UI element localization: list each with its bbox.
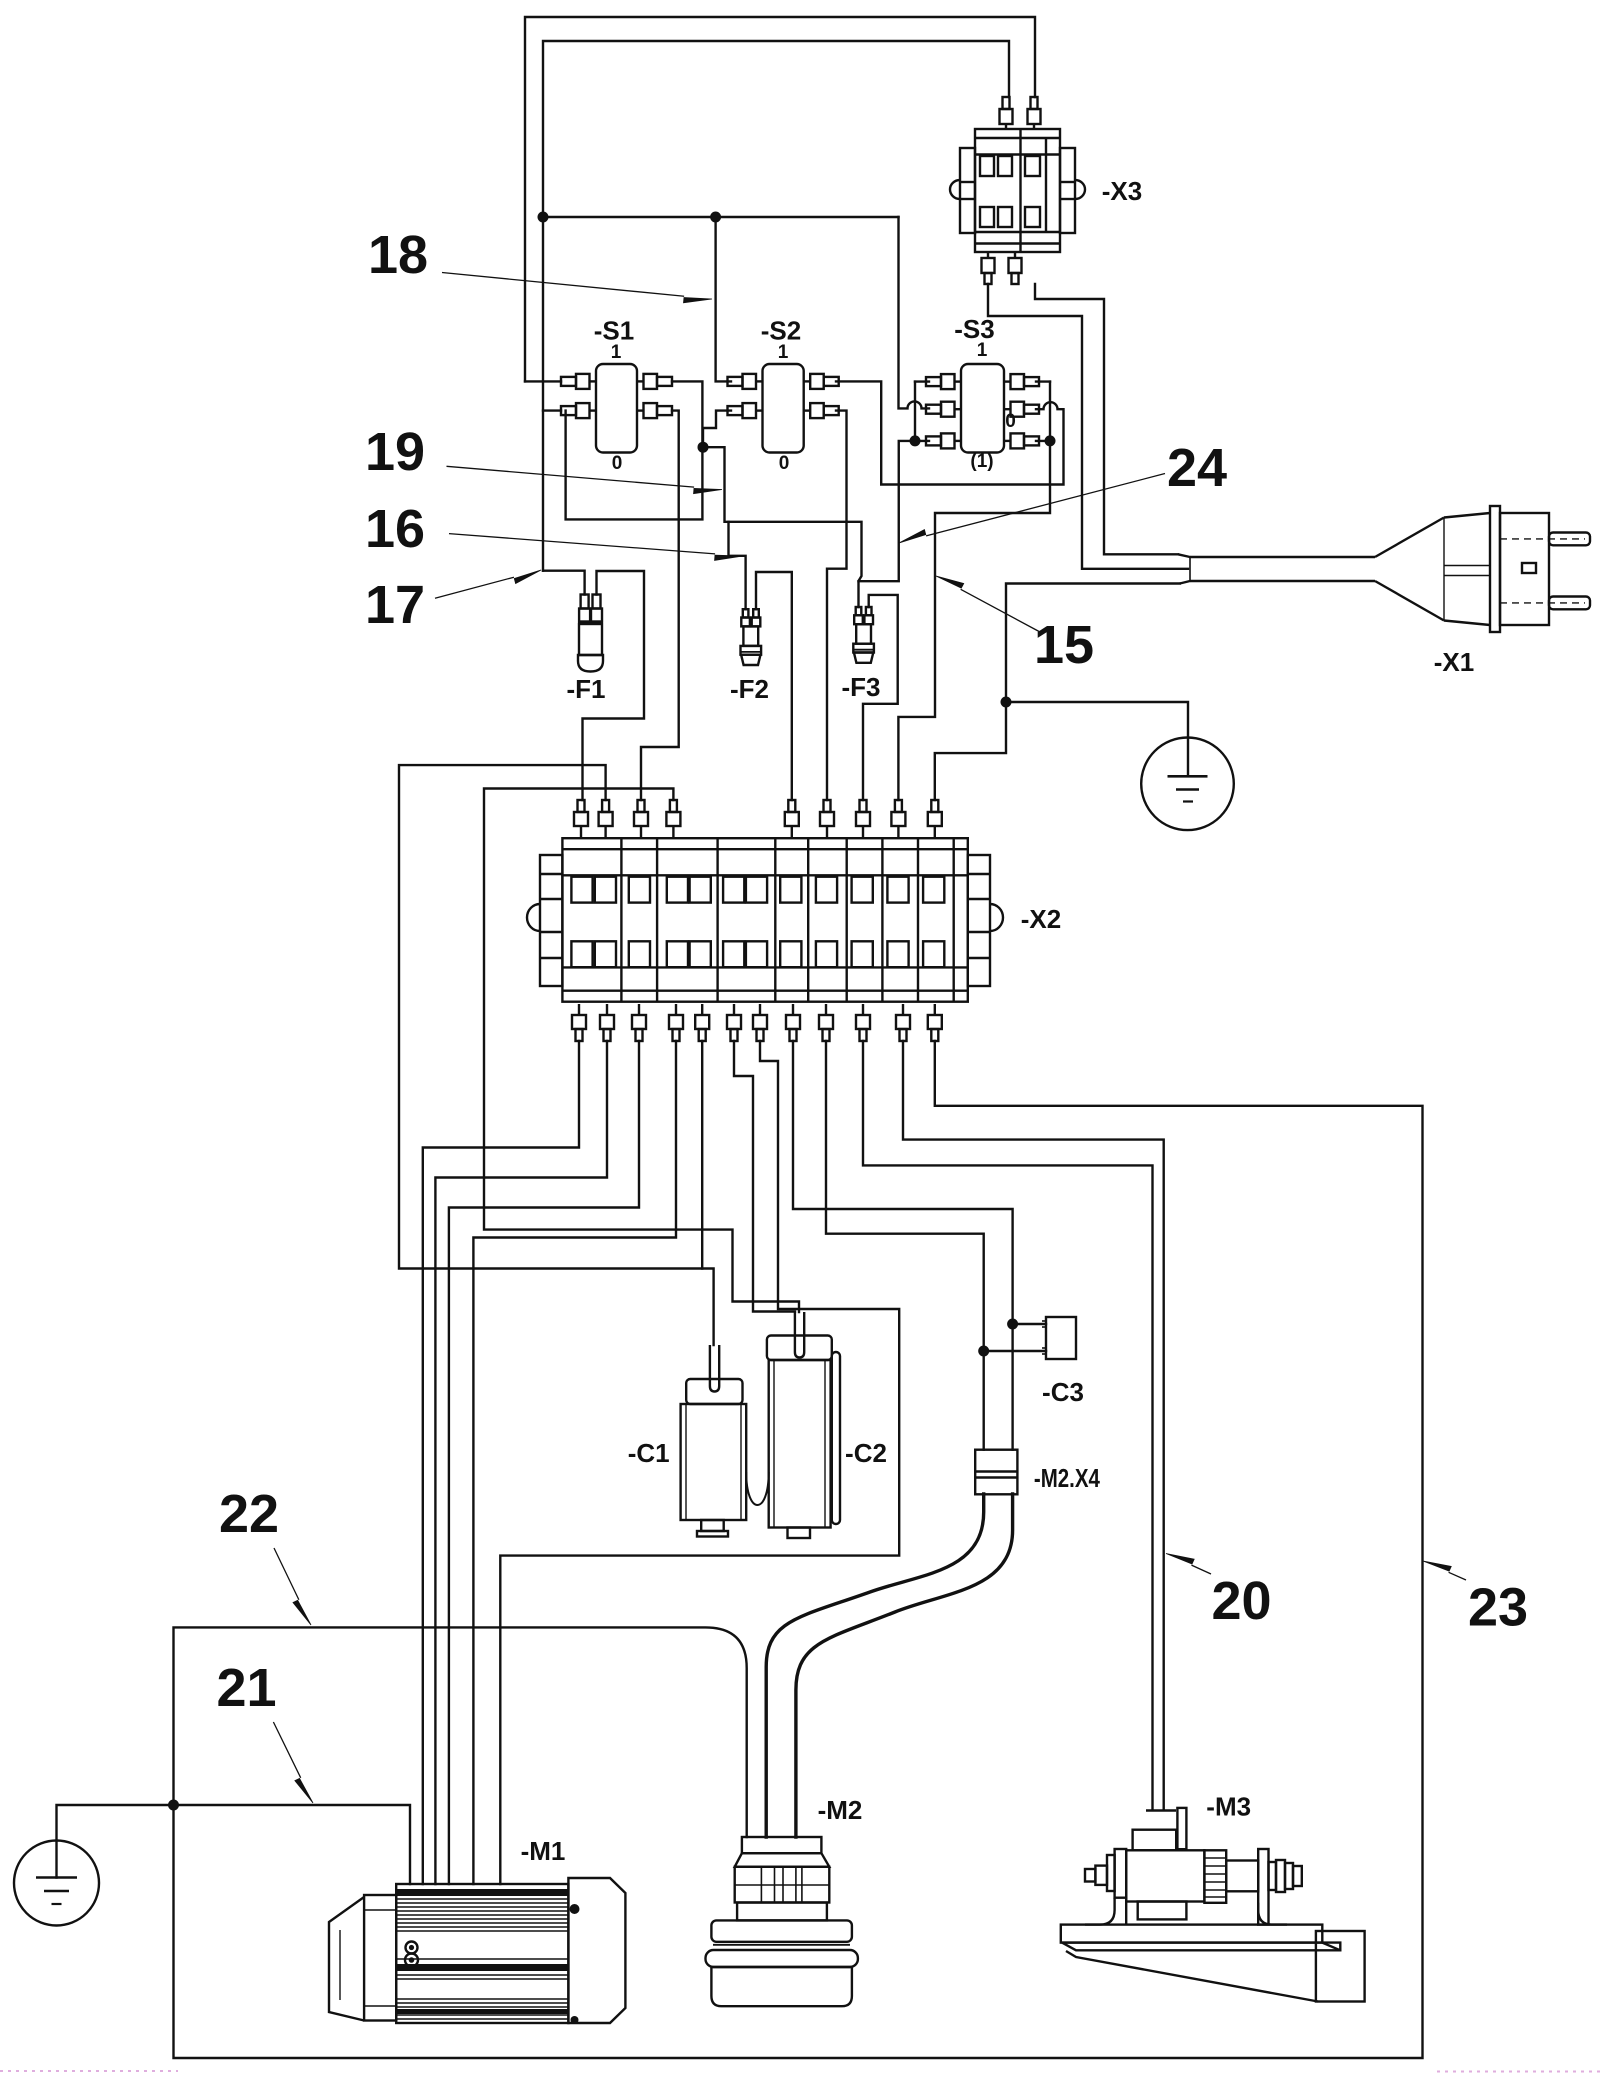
svg-text:1: 1 <box>611 342 622 363</box>
svg-text:-S3: -S3 <box>954 314 994 344</box>
svg-text:-S1: -S1 <box>594 316 634 346</box>
svg-text:-M2: -M2 <box>818 1795 863 1825</box>
svg-text:22: 22 <box>219 1484 279 1544</box>
svg-text:15: 15 <box>1034 615 1094 675</box>
svg-text:23: 23 <box>1468 1578 1528 1638</box>
svg-text:1: 1 <box>977 340 988 361</box>
svg-text:0: 0 <box>779 453 790 474</box>
svg-text:-M1: -M1 <box>521 1836 566 1866</box>
svg-text:24: 24 <box>1167 438 1227 498</box>
svg-text:-X2: -X2 <box>1021 904 1061 934</box>
svg-text:20: 20 <box>1211 1571 1271 1631</box>
svg-text:-F2: -F2 <box>730 674 769 704</box>
svg-text:21: 21 <box>216 1658 276 1718</box>
svg-text:-X3: -X3 <box>1102 176 1142 206</box>
svg-text:-C2: -C2 <box>845 1438 887 1468</box>
svg-text:0: 0 <box>612 453 623 474</box>
svg-text:-F1: -F1 <box>567 674 606 704</box>
svg-text:-M3: -M3 <box>1206 1792 1251 1822</box>
svg-text:-X1: -X1 <box>1434 647 1474 677</box>
svg-text:-F3: -F3 <box>842 672 881 702</box>
svg-text:-C3: -C3 <box>1042 1377 1084 1407</box>
svg-text:18: 18 <box>368 225 428 285</box>
svg-text:1: 1 <box>778 342 789 363</box>
svg-text:16: 16 <box>365 499 425 559</box>
svg-text:19: 19 <box>365 422 425 482</box>
svg-text:0: 0 <box>1005 411 1016 432</box>
svg-text:17: 17 <box>365 575 425 635</box>
svg-text:-M2.X4: -M2.X4 <box>1034 1463 1100 1493</box>
svg-text:(1): (1) <box>970 451 993 472</box>
svg-text:-S2: -S2 <box>761 316 801 346</box>
svg-text:-C1: -C1 <box>628 1438 670 1468</box>
